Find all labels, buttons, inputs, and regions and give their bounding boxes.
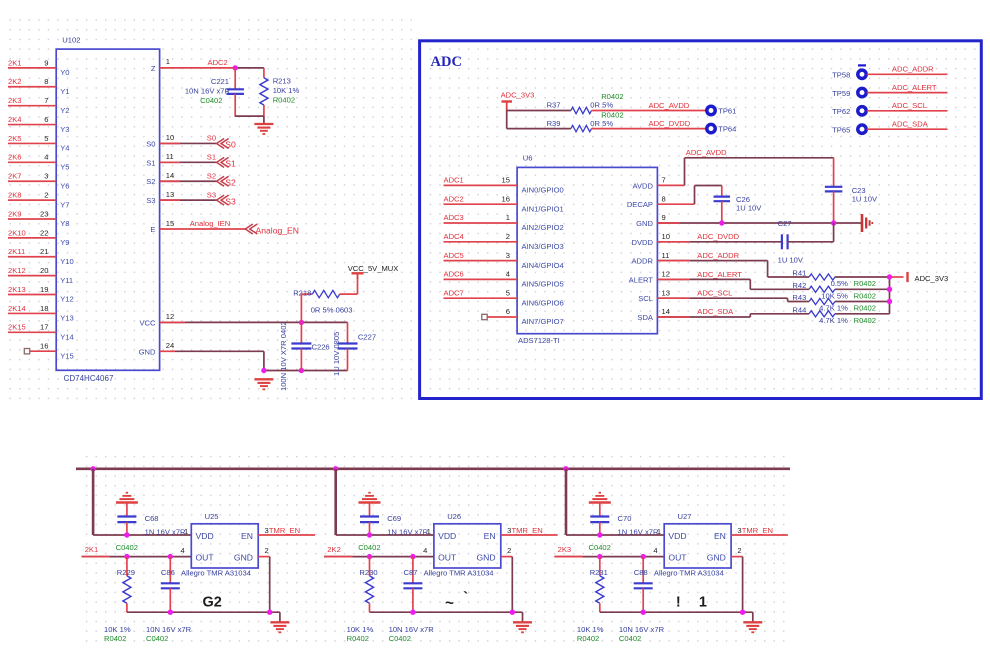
junction VCC rail / C226 <box>299 320 304 325</box>
net label 2K1 <box>85 545 99 554</box>
svg-text:EN: EN <box>714 531 726 541</box>
svg-text:2K2: 2K2 <box>8 77 22 86</box>
svg-text:4: 4 <box>653 546 657 555</box>
svg-text:S0: S0 <box>146 139 155 148</box>
junction cap bottom <box>168 610 173 615</box>
pin name SDA <box>637 313 654 322</box>
timer chip U26 body <box>434 512 501 568</box>
power symbol ADC_3V3 <box>501 91 535 111</box>
ground U25 <box>270 622 289 632</box>
pin name AIN4/GPIO4 <box>522 261 564 270</box>
svg-text:20: 20 <box>40 266 48 275</box>
label C69 value <box>358 514 428 552</box>
wire bus drop to U27 VDD <box>566 469 664 535</box>
svg-text:ADDR: ADDR <box>631 257 653 266</box>
capacitor C88 <box>634 557 653 613</box>
pin name Y4 <box>60 144 69 153</box>
net label 2K4 <box>8 115 22 124</box>
svg-text:C221: C221 <box>211 77 229 86</box>
junction GND rail <box>261 368 266 373</box>
test point TP59 <box>832 88 866 97</box>
net label 2K8 <box>8 191 22 200</box>
wire net 2K4 to U102 pin 6 <box>8 124 56 126</box>
svg-text:8: 8 <box>662 194 666 203</box>
svg-text:6: 6 <box>506 307 510 316</box>
label C87 <box>404 568 418 577</box>
svg-text:1U 10V: 1U 10V <box>852 195 878 204</box>
power symbol above C68 <box>116 493 138 517</box>
svg-text:R43: R43 <box>792 293 806 302</box>
pin number 10 <box>166 133 174 142</box>
svg-text:4: 4 <box>506 270 510 279</box>
svg-text:GND: GND <box>234 553 253 563</box>
svg-text:16: 16 <box>502 194 510 203</box>
test point TP62 <box>832 107 866 116</box>
pin number 4 <box>44 153 48 162</box>
label C68 value <box>116 514 186 552</box>
svg-text:ADS7128-TI: ADS7128-TI <box>518 336 560 345</box>
svg-text:16: 16 <box>40 342 48 351</box>
label C23 <box>852 186 878 204</box>
svg-text:3: 3 <box>44 172 48 181</box>
pin number 16 <box>502 194 510 203</box>
svg-text:Y6: Y6 <box>60 181 69 190</box>
wire ADC_3V3 to R39 <box>507 111 571 129</box>
pin name DECAP <box>627 200 653 209</box>
no-connect square pin 16 <box>24 348 29 353</box>
junction R229 top <box>124 554 129 559</box>
capacitor C26 <box>714 197 731 224</box>
ground U26 <box>513 622 532 632</box>
svg-text:U102: U102 <box>62 36 80 45</box>
capacitor C226 <box>291 344 311 371</box>
svg-text:11: 11 <box>662 251 670 260</box>
resistor R218 <box>301 277 357 298</box>
svg-text:1N 16V x7R: 1N 16V x7R <box>145 527 186 536</box>
label C227 <box>332 332 376 376</box>
label R213 value <box>273 77 300 105</box>
svg-text:SCL: SCL <box>638 294 653 303</box>
svg-text:Y9: Y9 <box>60 238 69 247</box>
svg-text:ADC3: ADC3 <box>444 213 464 222</box>
orientation mark U26 <box>445 589 468 612</box>
net label ADC1 <box>444 176 464 185</box>
label C26 <box>736 195 762 212</box>
net label ADC6 <box>444 270 464 279</box>
net label 2K13 <box>8 285 26 294</box>
svg-text:2K12: 2K12 <box>8 266 26 275</box>
svg-text:TMR_EN: TMR_EN <box>512 526 543 535</box>
svg-text:ADC5: ADC5 <box>444 251 464 260</box>
svg-text:5: 5 <box>506 288 510 297</box>
pin name Y7 <box>60 200 69 209</box>
pin number 7 <box>44 96 48 105</box>
svg-text:AIN7/GPIO7: AIN7/GPIO7 <box>522 317 564 326</box>
label C86 <box>161 568 175 577</box>
pin number 2 <box>507 546 511 555</box>
pin name Y3 <box>60 125 69 134</box>
svg-text:C227: C227 <box>358 332 376 341</box>
label C value <box>619 625 665 643</box>
pin number 10 <box>662 232 670 241</box>
net label TMR_EN <box>269 526 300 535</box>
svg-text:2K13: 2K13 <box>8 285 26 294</box>
wire net ADC7 to U6 pin 5 <box>444 297 518 299</box>
svg-text:OUT: OUT <box>438 553 457 563</box>
resistor R41 <box>809 274 889 280</box>
orientation mark U27 <box>676 595 707 611</box>
svg-text:4: 4 <box>423 546 427 555</box>
wire net ADC5 to U6 pin 3 <box>444 260 518 262</box>
capacitor C23 <box>825 158 843 223</box>
svg-text:0R 5% 0603: 0R 5% 0603 <box>311 306 353 315</box>
svg-text:GND: GND <box>636 219 653 228</box>
svg-text:R0402: R0402 <box>854 304 876 313</box>
off-page port Analog_EN <box>245 224 299 236</box>
net label ADC_ADDR <box>892 65 934 74</box>
pin name SCL <box>638 294 653 303</box>
svg-text:13: 13 <box>166 190 174 199</box>
svg-text:4: 4 <box>44 153 48 162</box>
svg-text:C0402: C0402 <box>589 543 611 552</box>
svg-text:TMR_EN: TMR_EN <box>269 526 300 535</box>
svg-text:10K 1%: 10K 1% <box>577 625 604 634</box>
wire net 2K8 to U102 pin 2 <box>8 199 56 201</box>
ground U27 <box>743 622 762 632</box>
pin number 1 <box>166 57 170 66</box>
pin name Y10 <box>60 257 74 266</box>
svg-text:VCC_5V_MUX: VCC_5V_MUX <box>348 264 399 273</box>
svg-text:1N 16V x7R: 1N 16V x7R <box>387 527 428 536</box>
svg-text:S2: S2 <box>146 177 155 186</box>
off-page port S3 <box>217 195 236 206</box>
pin number 5 <box>44 134 48 143</box>
svg-text:S1: S1 <box>207 153 216 162</box>
svg-text:CD74HC4067: CD74HC4067 <box>64 374 114 383</box>
svg-text:R218: R218 <box>293 288 311 297</box>
svg-text:4.7K 1%: 4.7K 1% <box>819 304 848 313</box>
wire net 2K2 to U102 pin 8 <box>8 86 56 88</box>
wire C221/R213 bottom <box>235 116 264 124</box>
wire power bus top <box>76 467 790 470</box>
pin name Y14 <box>60 333 74 342</box>
svg-text:10K 1%: 10K 1% <box>347 625 374 634</box>
junction C68 / VDD wire <box>124 532 129 537</box>
label R231 <box>590 568 608 577</box>
junction node ADC2 <box>233 65 238 70</box>
wire U102 S3 pin 13 <box>160 199 217 201</box>
svg-text:4.7K 1%: 4.7K 1% <box>819 316 848 325</box>
capacitor C69 <box>360 517 379 536</box>
svg-text:G2: G2 <box>203 595 222 611</box>
svg-text:14: 14 <box>166 171 174 180</box>
svg-text:0R 5%: 0R 5% <box>590 119 613 128</box>
capacitor C227 <box>338 322 358 370</box>
junction cap bottom <box>641 610 646 615</box>
pin name S1 <box>146 158 155 167</box>
svg-text:R0402: R0402 <box>854 316 876 325</box>
svg-text:2K5: 2K5 <box>8 134 22 143</box>
pin number 6 <box>506 307 510 316</box>
svg-text:ADC_AVDD: ADC_AVDD <box>649 101 690 110</box>
pin number 1 <box>184 527 188 536</box>
svg-text:TP59: TP59 <box>832 89 850 98</box>
net label S3 <box>207 190 216 199</box>
junction C23 / GND rail <box>831 220 836 225</box>
resistor R42 <box>809 286 889 292</box>
svg-text:ADC2: ADC2 <box>444 194 464 203</box>
svg-text:U26: U26 <box>447 512 461 521</box>
net label S1 <box>207 153 216 162</box>
svg-text:2K1: 2K1 <box>85 545 99 554</box>
no-connect U6 pin 6 <box>482 314 517 319</box>
pin name Y0 <box>60 68 69 77</box>
net label ADC5 <box>444 251 464 260</box>
test point TP61 <box>707 106 737 115</box>
svg-text:DECAP: DECAP <box>627 200 653 209</box>
wire net 2K1 to U102 pin 9 <box>8 67 56 69</box>
svg-text:Y13: Y13 <box>60 314 74 323</box>
svg-text:Y5: Y5 <box>60 163 69 172</box>
label Allegro part name <box>181 569 251 578</box>
resistor R39 <box>571 125 592 131</box>
pin number 8 <box>44 77 48 86</box>
junction cap top <box>168 554 173 559</box>
svg-text:Y8: Y8 <box>60 219 69 228</box>
net label TMR_EN <box>512 526 543 535</box>
svg-text:C70: C70 <box>618 514 632 523</box>
pin number 3 <box>507 526 511 535</box>
pin number 3 <box>506 251 510 260</box>
svg-text:AIN2/GPIO2: AIN2/GPIO2 <box>522 223 564 232</box>
pin number 6 <box>44 115 48 124</box>
wire net ADC3 to U6 pin 1 <box>444 222 518 224</box>
timer chip U25 body <box>191 512 258 568</box>
wire net TMR_EN <box>501 534 558 536</box>
pin name AIN3/GPIO3 <box>522 242 564 251</box>
pin name AIN0/GPIO0 <box>522 186 564 195</box>
net label 2K1 <box>8 58 22 67</box>
label R43 <box>792 293 876 313</box>
pin number 17 <box>40 323 48 332</box>
pin number 16 <box>40 342 48 351</box>
wire net 2K12 to U102 pin 20 <box>8 275 56 277</box>
wire net 2K10 to U102 pin 22 <box>8 237 56 239</box>
svg-text:Y0: Y0 <box>60 68 69 77</box>
svg-text:S0: S0 <box>225 140 236 150</box>
svg-text:U6: U6 <box>523 153 533 162</box>
svg-text:1: 1 <box>506 213 510 222</box>
svg-text:3: 3 <box>506 251 510 260</box>
junction bus drop U27 <box>563 466 568 471</box>
svg-text:ADC2: ADC2 <box>208 58 228 67</box>
svg-text:AIN5/GPIO5: AIN5/GPIO5 <box>522 280 564 289</box>
title ADC <box>431 54 462 70</box>
multiplexer U102 CD74HC4067 body <box>56 36 159 384</box>
pin name Y8 <box>60 219 69 228</box>
pin name ALERT <box>629 275 654 284</box>
svg-text:R231: R231 <box>590 568 608 577</box>
svg-text:Allegro TMR A31034: Allegro TMR A31034 <box>654 569 724 578</box>
resistor R37 <box>571 107 592 113</box>
svg-text:2K11: 2K11 <box>8 247 25 256</box>
svg-text:TP58: TP58 <box>832 71 850 80</box>
svg-text:DVDD: DVDD <box>631 238 653 247</box>
svg-text:1U 10V 0805: 1U 10V 0805 <box>332 332 341 376</box>
svg-text:100N 10V X7R 0402: 100N 10V X7R 0402 <box>279 321 288 391</box>
svg-text:ADC_SDA: ADC_SDA <box>892 119 929 128</box>
svg-text:24: 24 <box>166 341 174 350</box>
wire U6 ALERT net ADC_ALERT <box>657 279 809 289</box>
label C88 <box>634 568 648 577</box>
pin number 24 <box>166 341 174 350</box>
svg-text:S1: S1 <box>225 159 236 169</box>
svg-text:ADC_SDA: ADC_SDA <box>697 307 734 316</box>
junction C69 / VDD wire <box>367 532 372 537</box>
svg-text:1: 1 <box>427 527 431 536</box>
svg-text:10N 16V x7R: 10N 16V x7R <box>146 625 192 634</box>
label R value <box>577 625 604 643</box>
pin number 11 <box>662 251 670 260</box>
svg-text:2K4: 2K4 <box>8 115 22 124</box>
svg-text:10K 5%: 10K 5% <box>821 292 848 301</box>
svg-text:10N 16V x7R: 10N 16V x7R <box>619 625 665 634</box>
wire U102 S1 pin 11 <box>160 161 217 163</box>
svg-text:OUT: OUT <box>196 553 215 563</box>
svg-text:2K2: 2K2 <box>327 545 341 554</box>
pin number 14 <box>662 307 670 316</box>
svg-text:22: 22 <box>40 228 48 237</box>
svg-text:R37: R37 <box>547 101 561 110</box>
svg-text:R0402: R0402 <box>601 92 623 101</box>
svg-text:ADC4: ADC4 <box>444 232 464 241</box>
wire U102 VCC rail <box>160 321 348 323</box>
svg-text:ADC_SCL: ADC_SCL <box>892 101 927 110</box>
pin number 12 <box>166 312 174 321</box>
svg-text:Y3: Y3 <box>60 125 69 134</box>
label C226 <box>279 321 329 391</box>
svg-text:10: 10 <box>166 133 174 142</box>
pin name DVDD <box>631 238 653 247</box>
svg-text:C27: C27 <box>778 219 792 228</box>
capacitor C70 <box>590 517 609 536</box>
svg-text:S1: S1 <box>146 158 155 167</box>
svg-text:R41: R41 <box>792 269 806 278</box>
wire U6 GND rail <box>657 222 862 224</box>
wire U102 E pin 15 <box>160 228 246 230</box>
pin number 3 <box>737 526 741 535</box>
ground below R213 <box>254 124 273 134</box>
grid: top-left sheet <box>2 13 412 401</box>
junction R231 top <box>597 554 602 559</box>
svg-text:17: 17 <box>40 323 48 332</box>
ground right of GND rail <box>862 214 872 232</box>
wire net 2K2 to U26 OUT <box>324 556 434 558</box>
pin number 20 <box>40 266 48 275</box>
svg-text:C0402: C0402 <box>200 96 222 105</box>
svg-text:9: 9 <box>662 213 666 222</box>
resistor R44 <box>809 311 889 317</box>
net label 2K11 <box>8 247 25 256</box>
svg-text:R42: R42 <box>792 281 806 290</box>
test point TP65 <box>832 125 866 134</box>
wire net ADC_SDA <box>867 128 948 130</box>
resistor R213 <box>260 68 268 116</box>
svg-text:0.5%: 0.5% <box>831 279 849 288</box>
svg-text:R0402: R0402 <box>347 634 369 643</box>
wire U27 GND to rail <box>600 557 753 623</box>
wire U6 SCL net ADC_SCL <box>657 298 809 301</box>
wire net ADC6 to U6 pin 4 <box>444 278 518 280</box>
net label 2K7 <box>8 172 22 181</box>
svg-text:R44: R44 <box>792 305 806 314</box>
svg-text:21: 21 <box>40 247 48 256</box>
label C70 value <box>589 514 659 552</box>
label C value <box>389 625 435 643</box>
svg-text:E: E <box>150 225 155 234</box>
svg-text:Y12: Y12 <box>60 295 74 304</box>
net label TMR_EN <box>742 526 773 535</box>
svg-text:ADC7: ADC7 <box>444 288 464 297</box>
pin number 7 <box>662 176 666 185</box>
junction cap bottom <box>410 610 415 615</box>
svg-text:TP62: TP62 <box>832 107 850 116</box>
net label ADC_AVDD <box>649 101 690 110</box>
svg-text:7: 7 <box>44 96 48 105</box>
label R41 <box>792 269 876 289</box>
pin name Y2 <box>60 106 69 115</box>
svg-text:C0402: C0402 <box>146 634 168 643</box>
pin number 15 <box>166 219 174 228</box>
wire bus drop to U26 VDD <box>336 469 434 535</box>
wire net 2K13 to U102 pin 19 <box>8 294 56 296</box>
resistor R231 <box>596 557 604 613</box>
pin number 4 <box>506 270 510 279</box>
net label ADC_ALERT <box>697 270 742 279</box>
pin name VCC <box>139 318 156 327</box>
svg-text:0R 5%: 0R 5% <box>590 101 613 110</box>
svg-text:Y15: Y15 <box>60 351 74 360</box>
net label 2K5 <box>8 134 22 143</box>
junction GND rail <box>267 610 272 615</box>
junction GND rail <box>510 610 515 615</box>
net label ADC4 <box>444 232 464 241</box>
capacitor C86 <box>161 557 180 613</box>
svg-text:Y11: Y11 <box>60 276 73 285</box>
svg-text:Analog_EN: Analog_EN <box>256 226 299 236</box>
wire net 2K11 to U102 pin 21 <box>8 256 56 258</box>
pin number 19 <box>40 285 48 294</box>
net label 2K10 <box>8 228 26 237</box>
svg-text:ALERT: ALERT <box>629 275 654 284</box>
svg-text:2K10: 2K10 <box>8 228 26 237</box>
pin name Y6 <box>60 181 69 190</box>
wire net 2K7 to U102 pin 3 <box>8 180 56 182</box>
svg-text:!: ! <box>676 595 681 611</box>
power symbol above C70 <box>589 493 611 517</box>
net label ADC_SDA <box>892 119 929 128</box>
wire net 2K1 to U25 OUT <box>82 556 192 558</box>
junction cap top <box>410 554 415 559</box>
pin number 3 <box>44 172 48 181</box>
pin number 2 <box>737 546 741 555</box>
svg-text:AVDD: AVDD <box>632 181 653 190</box>
pin name Y9 <box>60 238 69 247</box>
svg-text:Y7: Y7 <box>60 200 69 209</box>
svg-text:2: 2 <box>506 232 510 241</box>
net label ADC_DVDD <box>649 119 691 128</box>
svg-text:U27: U27 <box>678 512 692 521</box>
